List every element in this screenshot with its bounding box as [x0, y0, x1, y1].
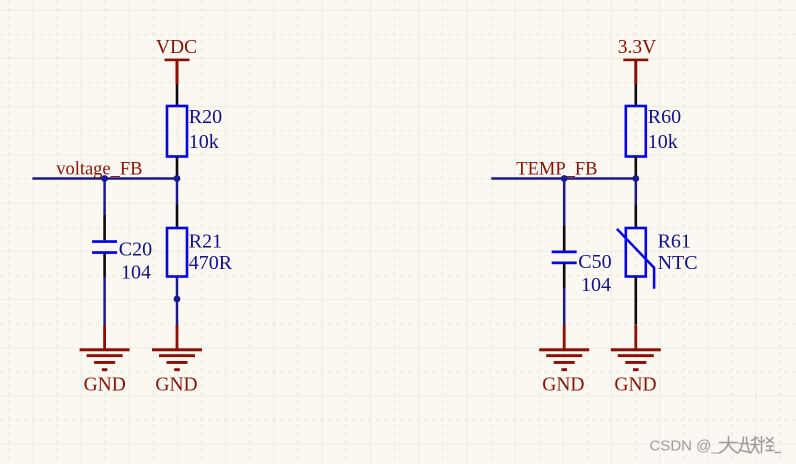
pin R61.2 wire to GND [634, 277, 637, 325]
pin C20.1 [103, 215, 106, 240]
wire net TEMP_FB [491, 177, 636, 180]
wire voltage_FB to R21 [176, 179, 179, 205]
resistor R21 [167, 228, 187, 277]
svg-text:C50: C50 [578, 251, 611, 273]
svg-text:R21: R21 [189, 230, 222, 252]
svg-text:GND: GND [155, 375, 197, 396]
power port 3.3V [618, 37, 656, 85]
svg-text:NTC: NTC [658, 252, 698, 274]
pin R60.2 [634, 157, 637, 179]
ground GND under R61 [611, 325, 661, 371]
svg-text:10k: 10k [648, 131, 678, 153]
ground GND under C50 [539, 325, 589, 371]
svg-text:C20: C20 [119, 239, 152, 261]
svg-text:104: 104 [121, 261, 151, 283]
pin R61.1 [634, 205, 637, 229]
pin C50.1 [563, 226, 566, 251]
svg-text:CSDN @_: CSDN @_ [650, 438, 721, 455]
svg-text:GND: GND [542, 375, 584, 396]
pin C50.2 [563, 264, 566, 289]
svg-text:GND: GND [84, 375, 126, 396]
wire TEMP_FB to C50 [563, 179, 566, 227]
ground GND under R21 [152, 325, 202, 371]
wire R21 to GND [176, 277, 179, 326]
svg-text:TEMP_FB: TEMP_FB [516, 160, 597, 180]
capacitor C20 [92, 240, 117, 254]
watermark glyph 怪 [759, 437, 775, 454]
svg-text:104: 104 [581, 274, 611, 296]
wire net voltage_FB [32, 177, 177, 180]
junction voltage_FB / C20 branch [101, 175, 108, 182]
junction TEMP_FB / C50 branch [561, 175, 568, 182]
ground GND under C20 [80, 325, 130, 371]
watermark trailing underscore [775, 452, 782, 454]
svg-text:3.3V: 3.3V [618, 37, 656, 58]
junction below R21 [174, 296, 181, 303]
pin R21.1 [176, 205, 179, 229]
pin R20.2 [176, 157, 179, 179]
pin R60.1 [634, 84, 637, 106]
power port VDC [156, 37, 197, 85]
watermark glyph 妖 [739, 437, 760, 454]
wire C50 to GND [563, 289, 566, 325]
svg-text:GND: GND [614, 375, 656, 396]
svg-text:voltage_FB: voltage_FB [56, 160, 142, 180]
thermistor R61 [617, 228, 654, 289]
wire C20 to GND [103, 277, 106, 325]
svg-text:R61: R61 [658, 230, 691, 252]
resistor R60 [626, 106, 646, 157]
svg-text:10k: 10k [189, 131, 219, 153]
pin C20.2 [103, 254, 106, 278]
pin R20.1 [176, 84, 179, 106]
junction voltage_FB / R21 branch [174, 175, 181, 182]
watermark glyph 大 [720, 437, 738, 454]
svg-text:R60: R60 [648, 106, 681, 128]
svg-text:VDC: VDC [156, 37, 197, 58]
svg-text:R20: R20 [189, 106, 222, 128]
capacitor C50 [552, 251, 577, 265]
wire TEMP_FB to R61 [635, 179, 638, 205]
resistor R20 [167, 106, 187, 157]
svg-text:470R: 470R [189, 252, 233, 274]
junction TEMP_FB / R61 branch [632, 175, 639, 182]
wire voltage_FB to C20 [103, 179, 106, 216]
